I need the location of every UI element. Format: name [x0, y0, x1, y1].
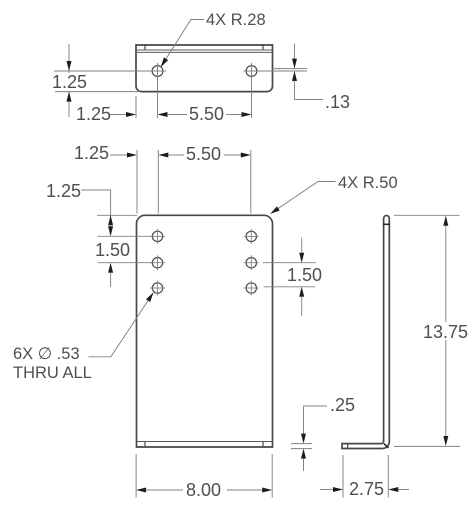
dim 1.25 leader (front view top-left): [46, 181, 152, 236]
dim 1.25 (above front view): [74, 143, 158, 214]
svg-text:THRU ALL: THRU ALL: [13, 364, 92, 382]
svg-text:1.25: 1.25: [76, 104, 111, 124]
svg-text:1.25: 1.25: [52, 72, 87, 92]
top view outline: [136, 45, 273, 92]
hole B1 (front row1 left): [150, 229, 165, 244]
hole B3 (front row3 left): [150, 281, 165, 296]
svg-text:4X R.50: 4X R.50: [338, 174, 398, 192]
svg-text:.13: .13: [325, 92, 350, 112]
dim 8.00 (below front view): [136, 454, 272, 500]
side view top edge tick: [383, 223, 390, 225]
top view bend ticks: [145, 45, 263, 50]
dim 1.25 vertical (top view left): [52, 44, 140, 117]
hole A2 (top view right): [246, 63, 257, 118]
svg-text:1.25: 1.25: [74, 143, 109, 163]
dim 1.25 horizontal (below top view): [76, 96, 136, 124]
svg-text:1.50: 1.50: [95, 240, 130, 260]
hole B6 (front row3 right): [244, 281, 259, 296]
callout 6X dia .53 THRU ALL: [13, 291, 156, 382]
svg-text:13.75: 13.75: [423, 322, 468, 342]
svg-text:8.00: 8.00: [186, 480, 221, 500]
callout 4X R.28: [159, 11, 266, 69]
hole B4 (front row1 right): [244, 229, 259, 244]
dim 5.50 (below top view): [158, 104, 252, 124]
dim .25 (side view foot): [291, 395, 355, 471]
hole centerline right: [244, 70, 307, 72]
dim 13.75 (right): [394, 215, 468, 446]
svg-text:1.25: 1.25: [46, 181, 81, 201]
hole B2 (front row2 left): [150, 255, 165, 270]
side view foot end tick: [347, 444, 349, 449]
dim 2.75 (below side view): [320, 455, 409, 499]
side view L-profile: [342, 215, 389, 448]
svg-text:2.75: 2.75: [349, 479, 384, 499]
front view bottom bend line: [137, 441, 273, 443]
svg-text:1.50: 1.50: [287, 265, 322, 285]
hole centerline left: [54, 70, 166, 72]
side view bend tick: [384, 444, 389, 448]
svg-text:6X ∅ .53: 6X ∅ .53: [13, 345, 80, 363]
hole A1 (top view left): [152, 63, 163, 118]
dim 1.50 (front view left): [95, 240, 152, 287]
hole B5 (front row2 right): [244, 255, 259, 270]
svg-text:5.50: 5.50: [186, 144, 221, 164]
dim .13 (top view right): [274, 44, 350, 113]
dim 5.50 (above front view): [158, 144, 251, 214]
top view flange edge lines: [136, 50, 273, 52]
dim 1.50 (front view right): [263, 238, 323, 316]
front view outline: [137, 215, 273, 447]
front view bend ticks: [145, 442, 263, 448]
callout 4X R.50: [269, 174, 398, 216]
svg-text:.25: .25: [330, 395, 355, 415]
svg-text:5.50: 5.50: [189, 104, 224, 124]
svg-text:4X R.28: 4X R.28: [206, 11, 266, 29]
